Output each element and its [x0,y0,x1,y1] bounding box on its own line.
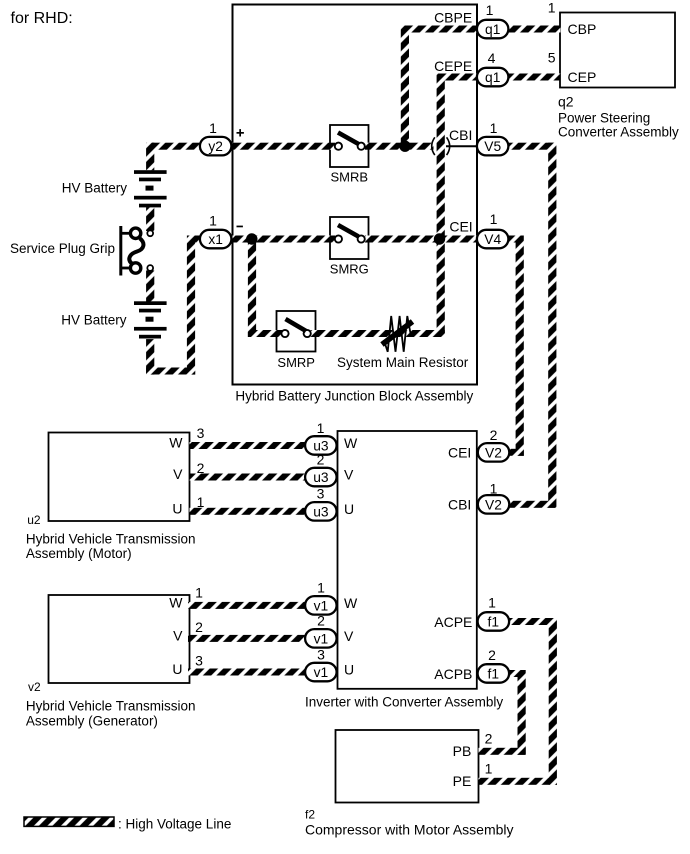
svg-text:v1: v1 [314,665,329,680]
svg-text:HV Battery: HV Battery [62,181,128,196]
svg-text:3: 3 [197,425,205,441]
svg-text:CEI: CEI [449,219,472,235]
svg-text:1: 1 [197,494,205,510]
svg-text:q1: q1 [485,22,500,37]
svg-text:3: 3 [317,486,325,502]
svg-text:V: V [173,466,183,482]
svg-text:1: 1 [485,761,493,777]
svg-text:HV Battery: HV Battery [61,312,127,327]
svg-text:SMRG: SMRG [330,262,369,277]
svg-text:V5: V5 [484,139,501,154]
svg-text:1: 1 [490,211,498,227]
svg-text:W: W [344,435,358,451]
svg-text:3: 3 [195,652,203,668]
svg-text:System Main Resistor: System Main Resistor [337,355,469,370]
svg-text:: High Voltage Line: : High Voltage Line [118,816,231,831]
svg-text:1: 1 [317,420,325,436]
svg-text:Hybrid Vehicle Transmission: Hybrid Vehicle Transmission [26,531,196,546]
svg-text:V2: V2 [485,445,502,460]
svg-text:CBP: CBP [568,21,597,37]
svg-text:v1: v1 [314,598,329,613]
svg-text:v1: v1 [314,631,329,646]
svg-text:1: 1 [490,481,498,497]
svg-text:2: 2 [195,619,203,635]
svg-text:1: 1 [486,2,494,18]
svg-text:Hybrid Vehicle Transmission: Hybrid Vehicle Transmission [26,698,196,713]
svg-text:1: 1 [317,580,325,596]
svg-text:q1: q1 [485,70,500,85]
svg-text:2: 2 [317,613,325,629]
svg-text:CBI: CBI [448,496,471,512]
svg-text:V4: V4 [484,232,501,247]
svg-text:CEI: CEI [448,444,471,460]
svg-text:V: V [344,628,354,644]
svg-text:u3: u3 [313,470,329,485]
svg-text:2: 2 [488,647,496,663]
svg-text:W: W [344,595,358,611]
svg-text:V: V [344,467,354,483]
svg-text:U: U [344,662,354,678]
svg-text:CEPE: CEPE [434,58,472,74]
svg-text:3: 3 [317,646,325,662]
svg-text:2: 2 [485,730,493,746]
svg-text:V: V [173,628,183,644]
svg-text:2: 2 [317,451,325,467]
svg-text:W: W [169,595,183,611]
svg-text:Inverter with Converter Assemb: Inverter with Converter Assembly [305,694,503,709]
svg-text:Assembly (Generator): Assembly (Generator) [26,713,158,728]
svg-text:PE: PE [453,773,472,789]
svg-text:y2: y2 [208,139,223,154]
svg-text:1: 1 [209,213,217,229]
svg-text:Compressor with Motor Assembly: Compressor with Motor Assembly [305,822,514,838]
svg-text:ACPE: ACPE [434,614,472,630]
svg-text:PB: PB [453,743,472,759]
svg-text:f1: f1 [488,615,500,630]
svg-text:Assembly (Motor): Assembly (Motor) [26,546,132,561]
svg-text:1: 1 [209,120,217,136]
svg-text:U: U [172,501,182,517]
svg-text:x1: x1 [208,232,223,247]
svg-text:Service Plug Grip: Service Plug Grip [10,241,115,256]
svg-text:Hybrid Battery Junction Block: Hybrid Battery Junction Block Assembly [235,389,473,404]
svg-text:CBPE: CBPE [434,10,472,26]
svg-text:V2: V2 [485,497,502,512]
svg-text:f2: f2 [305,808,315,822]
svg-text:v2: v2 [28,680,41,694]
svg-text:5: 5 [548,50,556,66]
svg-text:W: W [169,435,183,451]
svg-text:U: U [172,661,182,677]
svg-text:u3: u3 [313,504,329,519]
svg-text:CBI: CBI [449,127,472,143]
svg-text:for RHD:: for RHD: [11,10,73,27]
svg-text:1: 1 [195,584,203,600]
svg-text:1: 1 [490,120,498,136]
svg-text:ACPB: ACPB [434,666,472,682]
svg-text:q2: q2 [558,93,574,109]
svg-text:2: 2 [490,427,498,443]
svg-text:2: 2 [197,460,205,476]
svg-text:SMRB: SMRB [331,170,369,185]
svg-text:f1: f1 [488,667,500,682]
svg-text:SMRP: SMRP [277,355,315,370]
svg-text:CEP: CEP [568,69,597,85]
svg-text:U: U [344,501,354,517]
svg-text:Converter Assembly: Converter Assembly [558,124,679,139]
svg-text:u2: u2 [27,513,41,527]
svg-text:Power Steering: Power Steering [558,110,650,125]
svg-text:4: 4 [488,50,496,66]
svg-text:1: 1 [548,0,556,16]
svg-text:1: 1 [488,595,496,611]
